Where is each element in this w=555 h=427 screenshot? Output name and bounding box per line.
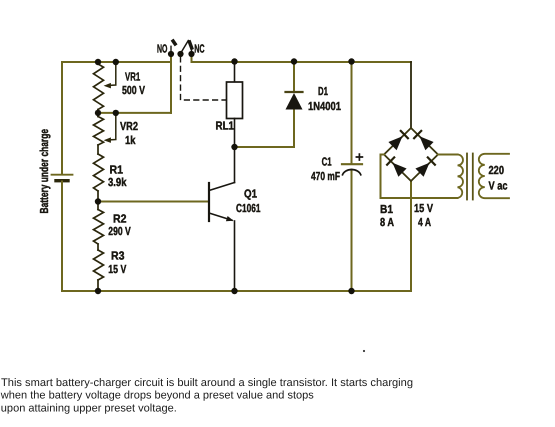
- bridge diode bottom-right: [415, 163, 429, 177]
- wire C1 bottom vertical: [351, 170, 353, 291]
- wire D1 cathode to RL1 bottom: [235, 109, 295, 148]
- wire bottom horizontal (ground rail): [62, 290, 411, 292]
- junction dot D1 top: [291, 58, 297, 64]
- capacitor C1 negative plate (curved): [343, 170, 361, 175]
- svg-text:8 A: 8 A: [380, 216, 394, 229]
- resistor R3 15 V: [94, 250, 104, 280]
- svg-text:500 V: 500 V: [122, 84, 145, 97]
- svg-text:VR1: VR1: [125, 71, 141, 84]
- junction dot VR1/VR2: [95, 110, 101, 116]
- bridge B1 diamond outline: [384, 128, 438, 181]
- svg-text:C1061: C1061: [236, 202, 261, 215]
- wire bridge AC left loop: [381, 155, 458, 199]
- transistor Q1 collector wire: [234, 147, 236, 183]
- wire VR1/VR2 junction horizontal: [98, 112, 171, 114]
- svg-text:V ac: V ac: [489, 180, 508, 193]
- wire bridge - output vertical: [410, 181, 412, 291]
- transformer core: [466, 154, 468, 200]
- relay switch arm (common): [181, 41, 189, 54]
- relay contact NO fixed bar: [172, 40, 176, 46]
- resistor chain lead R2-R3: [97, 244, 99, 250]
- svg-text:NO: NO: [157, 43, 167, 56]
- junction dot RL1 bottom / D1: [231, 144, 237, 150]
- junction dot C1 top: [348, 58, 354, 64]
- transistor Q1 emitter wire: [234, 221, 236, 291]
- junction dot divider bottom: [95, 288, 101, 294]
- transistor Q1 base bar: [208, 183, 210, 221]
- resistor chain lead VR2-R1: [97, 145, 99, 154]
- svg-text:RL1: RL1: [216, 120, 235, 133]
- resistor R2 290 V: [94, 210, 104, 245]
- svg-text:1N4001: 1N4001: [308, 100, 341, 113]
- relay contact NO stub: [170, 46, 172, 54]
- wire left vertical lower (battery -): [61, 182, 63, 292]
- capacitor C1 plus sign: [356, 154, 362, 160]
- wire C1 top vertical: [351, 62, 353, 164]
- wire top-left horizontal (battery + to NO contact): [62, 61, 171, 63]
- resistor chain lead VR1-junction: [97, 110, 99, 113]
- transistor Q1 emitter arrow: [226, 216, 234, 221]
- diode D1 cathode bar: [286, 91, 303, 93]
- svg-text:R3: R3: [111, 250, 125, 263]
- bridge diode top-right: [420, 136, 434, 150]
- battery BT bottom plate: [56, 179, 68, 182]
- relay contact NC stub: [191, 50, 193, 55]
- bridge diode bottom-left: [393, 163, 407, 177]
- junction dot C1 bottom / ground rail: [348, 288, 354, 294]
- wire transistor base from divider: [98, 201, 209, 203]
- VR2 wiper arm: [108, 113, 116, 140]
- junction dot emitter / ground rail: [231, 288, 237, 294]
- wire bridge + output vertical: [410, 62, 412, 128]
- svg-text:VR2: VR2: [120, 120, 138, 133]
- svg-text:4 A: 4 A: [418, 216, 431, 229]
- svg-text:NC: NC: [194, 43, 205, 56]
- diode D1 triangle: [286, 93, 303, 110]
- resistor chain lead junction-VR2: [97, 113, 99, 117]
- svg-text:Q1: Q1: [244, 188, 257, 201]
- svg-text:470 mF: 470 mF: [311, 170, 340, 183]
- wire NC contact to right rail: [192, 55, 412, 63]
- bridge diode top-left: [388, 136, 402, 150]
- svg-text:3.9k: 3.9k: [108, 176, 127, 189]
- junction dot top rail / VR1: [95, 59, 101, 65]
- capacitor C1 positive plate: [342, 163, 362, 165]
- svg-text:15 V: 15 V: [414, 202, 433, 215]
- resistor chain lead R1-base node: [97, 191, 99, 202]
- resistor chain lead base node-R2: [97, 202, 99, 210]
- svg-text:290 V: 290 V: [108, 225, 131, 238]
- resistor chain lead bottom: [97, 280, 99, 291]
- wire left vertical upper (battery +): [61, 62, 63, 174]
- junction dot NO contact: [168, 51, 174, 57]
- relay mechanical link (dashed): [181, 57, 227, 100]
- relay coil RL1 lead top: [234, 62, 236, 83]
- svg-text:Battery under charge: Battery under charge: [38, 129, 51, 214]
- svg-text:upon attaining upper preset vo: upon attaining upper preset voltage.: [1, 403, 177, 415]
- wire bridge AC right to transformer: [438, 154, 458, 156]
- wire NO contact vertical to wiper node: [170, 55, 172, 113]
- transistor Q1 collector diagonal: [209, 183, 235, 191]
- relay contact NC fixed bar: [189, 40, 192, 49]
- wire D1 anode vertical: [293, 62, 295, 92]
- svg-text:15 V: 15 V: [108, 263, 126, 276]
- relay coil RL1 body: [227, 82, 243, 119]
- junction dot VR2 wiper: [113, 110, 119, 116]
- resistor VR1 (potentiometer, 500 V): [94, 64, 104, 110]
- svg-text:This smart battery-charger cir: This smart battery-charger circuit is bu…: [1, 377, 413, 389]
- junction dot RL1 top: [231, 58, 237, 64]
- svg-text:R1: R1: [110, 164, 124, 177]
- stray mark: [363, 350, 365, 352]
- resistor chain lead (top): [97, 62, 99, 64]
- junction dot base node: [95, 198, 101, 204]
- svg-text:220: 220: [489, 164, 505, 177]
- svg-text:when the battery voltage drops: when the battery voltage drops beyond a …: [0, 390, 314, 402]
- transistor Q1 emitter diagonal: [209, 213, 232, 220]
- junction dot NC contact: [188, 51, 194, 57]
- resistor R1 3.9k: [94, 154, 104, 191]
- transformer primary winding 220V: [479, 154, 509, 198]
- svg-text:B1: B1: [380, 203, 393, 216]
- junction dot top rail / VR1 wiper: [113, 59, 119, 65]
- battery BT (under charge) top plate: [52, 174, 73, 176]
- VR1 wiper arm: [108, 62, 116, 86]
- junction dot common contact: [177, 51, 183, 57]
- svg-text:R2: R2: [113, 213, 127, 226]
- svg-text:C1: C1: [322, 156, 332, 169]
- svg-text:1k: 1k: [125, 134, 136, 147]
- svg-text:D1: D1: [318, 85, 328, 98]
- resistor VR2 (potentiometer, 1k): [94, 117, 104, 146]
- transformer secondary winding 15V: [458, 154, 464, 198]
- relay coil RL1 lead bottom: [234, 119, 236, 148]
